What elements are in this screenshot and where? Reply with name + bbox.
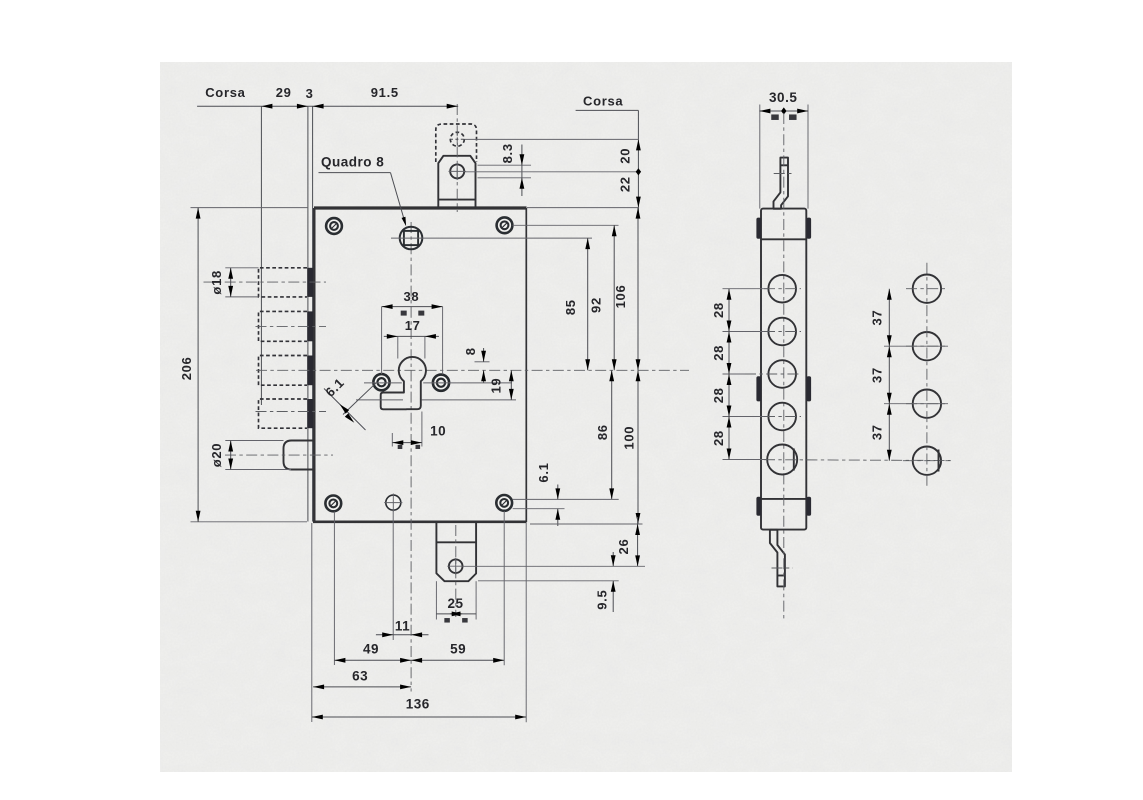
front view: lock body outline — [313, 208, 527, 522]
dim chain 28 x4 — [728, 289, 730, 460]
svg-text:ø18: ø18 — [209, 270, 224, 295]
corner screws — [326, 218, 342, 234]
long centerline to right group — [764, 459, 951, 462]
svg-text:37: 37 — [870, 310, 885, 326]
dim 8.3 — [478, 164, 532, 166]
dim 63 — [313, 686, 411, 688]
cylinder fixing screws — [373, 374, 389, 390]
dim 85 — [587, 238, 589, 370]
dim 100 — [637, 370, 639, 524]
svg-text:8.3: 8.3 — [500, 143, 515, 163]
svg-text:26: 26 — [616, 539, 631, 555]
right group holes — [913, 275, 941, 303]
side view top bent rod — [774, 158, 789, 209]
deadbolts (hidden/dashed) with face bars — [259, 268, 308, 297]
svg-text:22: 22 — [618, 176, 633, 192]
side rivet bumps — [756, 218, 761, 239]
dashed tab hole — [450, 132, 464, 146]
svg-text:20: 20 — [618, 148, 633, 164]
svg-text:38: 38 — [403, 289, 419, 304]
faceplate edge lines — [307, 106, 309, 521]
bolt centerlines — [204, 281, 327, 283]
19 lower extension line — [356, 399, 403, 401]
dim o18 — [225, 267, 258, 269]
svg-text:37: 37 — [870, 424, 885, 440]
svg-text:6.1: 6.1 — [536, 462, 551, 482]
dim 8 — [475, 361, 490, 363]
dim 10 — [391, 433, 393, 447]
svg-text:Corsa: Corsa — [583, 93, 623, 108]
svg-text:25: 25 — [447, 596, 463, 611]
svg-text:10: 10 — [430, 423, 446, 438]
svg-text:Quadro 8: Quadro 8 — [321, 155, 384, 170]
side view extension lines 30.5 — [759, 105, 761, 209]
side view vertical centerline — [783, 113, 785, 621]
quadro 8 square follower — [400, 227, 423, 250]
svg-text:106: 106 — [613, 285, 628, 309]
screws horizontal line — [364, 382, 402, 384]
svg-text:9.5: 9.5 — [594, 590, 609, 610]
svg-text:28: 28 — [711, 345, 726, 361]
svg-text:49: 49 — [363, 642, 379, 657]
latch centerline — [225, 454, 333, 456]
corsa travel line — [260, 106, 262, 405]
side hole centerline crosses — [723, 288, 769, 290]
svg-text:91.5: 91.5 — [371, 85, 399, 100]
dim 6.1 right — [513, 498, 619, 500]
dim 136 — [312, 716, 526, 718]
dim 9.5 — [463, 565, 645, 567]
bottom extension verticals — [333, 512, 335, 666]
dim 30.5 — [759, 110, 808, 112]
top tab solid — [438, 156, 475, 208]
dim 206 — [191, 207, 309, 209]
dim chain 37 x3 — [888, 289, 890, 461]
svg-text:28: 28 — [711, 302, 726, 318]
svg-text:100: 100 — [621, 426, 636, 450]
dim o20 — [225, 440, 283, 442]
dim 106 — [637, 208, 639, 371]
dim 26 — [530, 523, 643, 525]
svg-text:206: 206 — [179, 357, 194, 381]
svg-text:136: 136 — [406, 697, 430, 712]
svg-text:63: 63 — [352, 669, 368, 684]
cylinder keyhole profile with lug — [381, 357, 426, 409]
dim 86 — [611, 370, 613, 499]
svg-text:59: 59 — [450, 642, 466, 657]
side view body — [761, 209, 806, 530]
bottom tab centerline — [455, 525, 457, 617]
svg-text:85: 85 — [563, 299, 578, 315]
cylinder vertical centerline — [410, 222, 412, 692]
latch bolt (o20) — [284, 441, 315, 470]
svg-text:Corsa: Corsa — [205, 85, 245, 100]
top tab hole — [450, 164, 464, 178]
svg-text:8: 8 — [463, 347, 478, 355]
svg-text:3: 3 — [306, 86, 314, 101]
side view bottom bent rod — [770, 530, 785, 587]
dim 25 — [436, 613, 476, 615]
dim 17 — [397, 336, 399, 358]
dim 19 — [510, 370, 512, 400]
svg-text:17: 17 — [405, 318, 421, 333]
dim 11 — [376, 634, 429, 636]
right group centerlines — [926, 263, 928, 486]
tab centerline — [456, 104, 458, 212]
dim 92 — [513, 224, 619, 226]
bottom tab hole — [449, 559, 463, 573]
side view bolt holes — [768, 275, 796, 303]
svg-text:28: 28 — [711, 387, 726, 403]
top tab dashed (travel position) — [436, 124, 477, 162]
svg-text:ø20: ø20 — [209, 443, 224, 468]
dim 49 / 59 — [334, 659, 504, 661]
svg-text:92: 92 — [589, 297, 604, 313]
svg-text:37: 37 — [870, 367, 885, 383]
scanned paper area — [160, 62, 1012, 772]
main horizontal centerline — [256, 369, 689, 371]
svg-text:11: 11 — [395, 618, 410, 633]
bottom tab — [436, 523, 476, 581]
quadro horizontal centerline / 85 extension — [391, 237, 592, 239]
dim 38 — [381, 307, 383, 375]
svg-text:28: 28 — [711, 430, 726, 446]
dim chain Corsa 29 3 91.5 — [197, 105, 458, 107]
svg-text:86: 86 — [595, 424, 610, 440]
svg-text:29: 29 — [276, 85, 292, 100]
middle bottom hole — [386, 495, 401, 510]
svg-text:19: 19 — [489, 378, 504, 394]
leader 6.1 left diagonal slot dim — [343, 383, 376, 414]
svg-text:30.5: 30.5 — [769, 90, 797, 105]
